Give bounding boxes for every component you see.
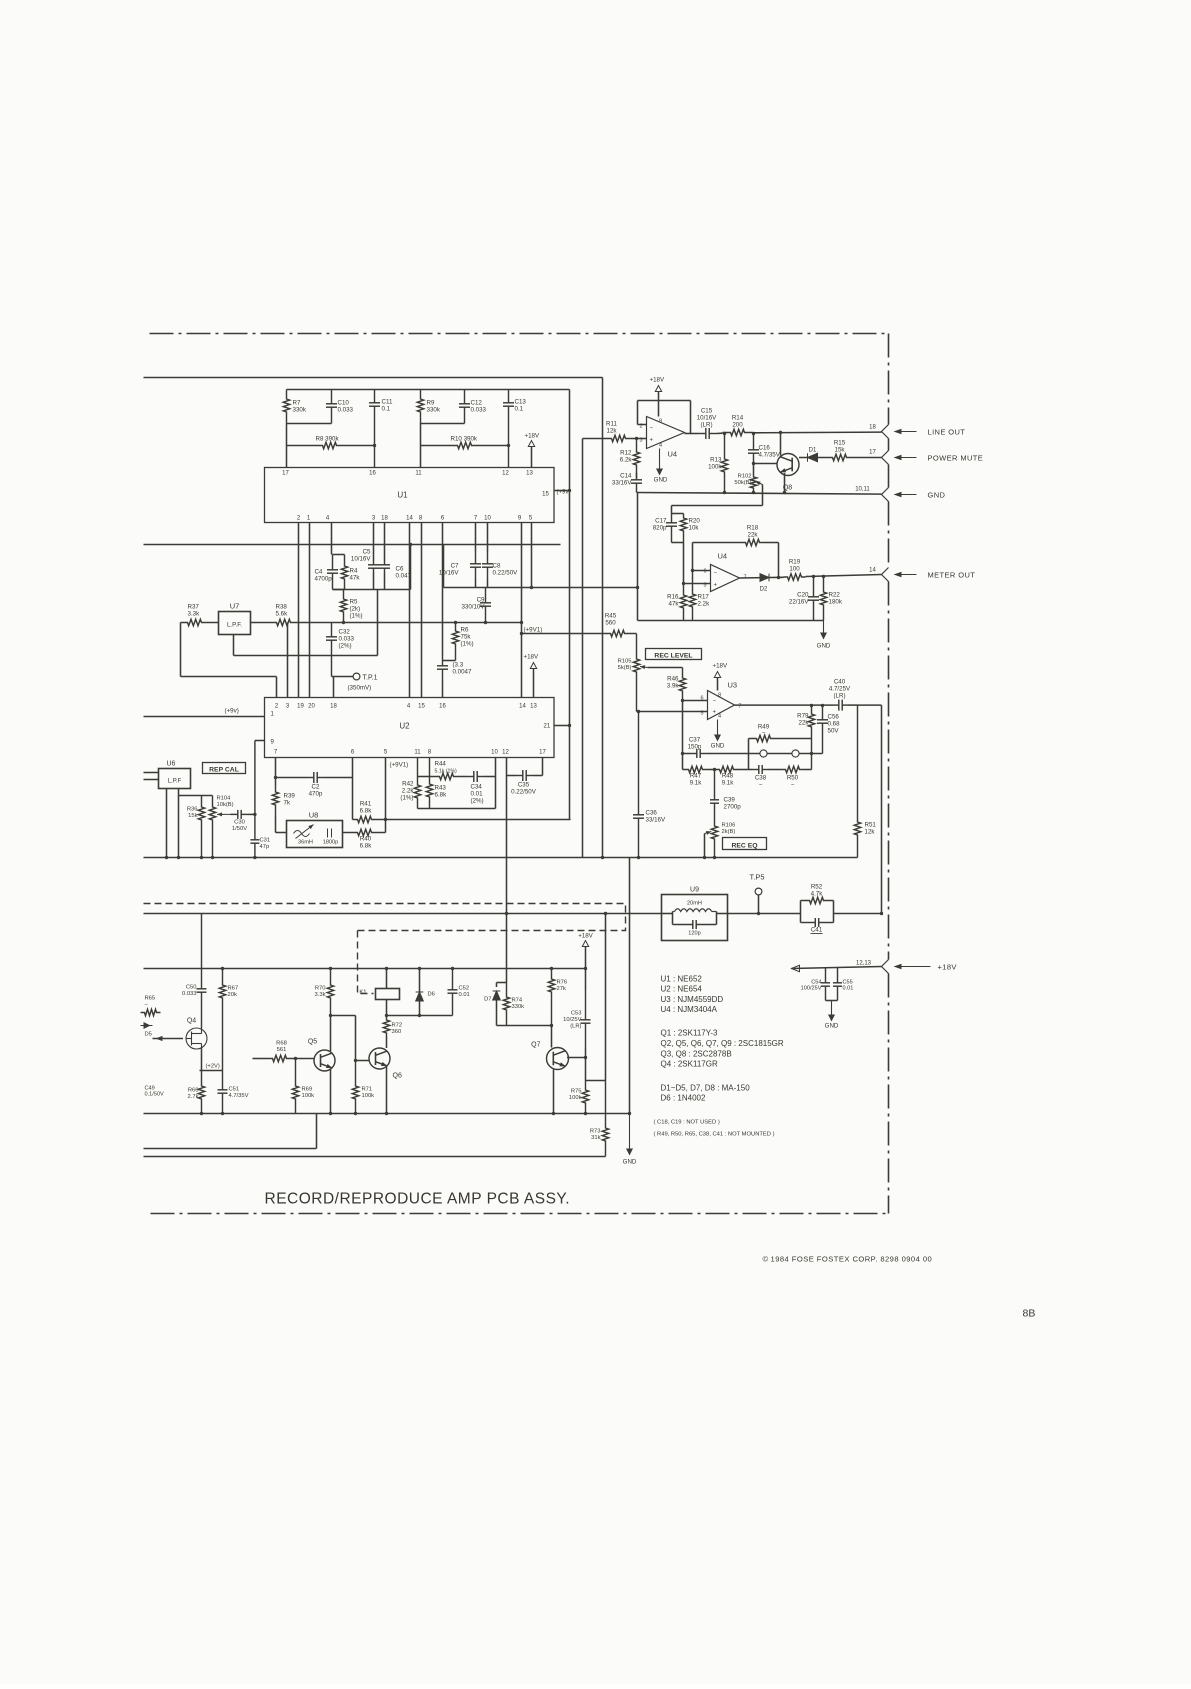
svg-text:R45: R45 xyxy=(605,613,617,620)
resistor R10 xyxy=(421,442,509,448)
svg-text:D1~D5, D7, D8 : MA-150: D1~D5, D7, D8 : MA-150 xyxy=(661,1084,751,1093)
wire D7 bottom xyxy=(496,1000,498,1026)
resistor R5 xyxy=(340,590,346,623)
svg-text:C51: C51 xyxy=(229,1087,240,1093)
svg-text:R40: R40 xyxy=(360,836,372,843)
capacitor C34 xyxy=(466,771,486,782)
svg-text:0.1: 0.1 xyxy=(382,406,391,413)
svg-text:2: 2 xyxy=(297,516,301,522)
svg-text:0.033: 0.033 xyxy=(338,407,354,414)
svg-text:R11: R11 xyxy=(606,421,617,428)
resistor R51 xyxy=(854,705,860,857)
svg-text:Q3, Q8 : 2SC2878B: Q3, Q8 : 2SC2878B xyxy=(661,1049,732,1058)
junction xyxy=(200,856,203,859)
wire to TP1 xyxy=(332,676,354,678)
label R19 100 xyxy=(789,559,801,573)
label R75 xyxy=(569,1089,582,1102)
wire U4b pin6 line xyxy=(693,570,711,572)
svg-text:16: 16 xyxy=(369,471,376,477)
svg-text:4: 4 xyxy=(407,704,411,710)
svg-text:U6: U6 xyxy=(167,761,176,768)
wire x377 xyxy=(377,590,379,656)
+18V supply arrow xyxy=(714,672,720,678)
wire xyxy=(475,579,477,588)
wire +9v ladder rail xyxy=(287,389,570,391)
wire power mute to border xyxy=(853,457,882,459)
wire xyxy=(849,704,858,706)
svg-text:8: 8 xyxy=(718,693,721,699)
svg-text:4: 4 xyxy=(659,443,662,449)
svg-text:RECORD/REPRODUCE AMP PCB AS: RECORD/REPRODUCE AMP PCB ASSY. xyxy=(265,1191,571,1208)
svg-text:D1: D1 xyxy=(809,448,817,454)
diode D5 fragment xyxy=(141,1025,153,1027)
wire U1 pin9 to U2 pin14 xyxy=(521,523,523,698)
+18V supply arrow xyxy=(655,386,661,392)
svg-text:C32: C32 xyxy=(339,629,351,636)
svg-text:C2: C2 xyxy=(312,784,320,791)
junction xyxy=(221,1112,224,1115)
junction xyxy=(385,967,388,970)
svg-text:15: 15 xyxy=(418,704,425,710)
svg-text:+: + xyxy=(713,710,717,716)
resistor R66 xyxy=(198,1071,204,1114)
label R71 xyxy=(362,1087,375,1100)
svg-text:R19: R19 xyxy=(789,559,801,566)
junction xyxy=(601,856,604,859)
resistor R36 xyxy=(198,796,204,858)
label R106 xyxy=(722,823,736,836)
wire input vertical x582 xyxy=(582,439,584,858)
junction xyxy=(584,967,587,970)
svg-text:R48: R48 xyxy=(722,773,734,780)
svg-text:5k(B): 5k(B) xyxy=(618,665,632,671)
svg-text:−: − xyxy=(759,782,763,789)
label R74 xyxy=(512,998,525,1011)
transistor Q4 (FET) xyxy=(186,1028,207,1049)
svg-text:T.P.1: T.P.1 xyxy=(363,675,378,682)
svg-text:GND: GND xyxy=(711,743,725,750)
wire U4b feedback left xyxy=(692,543,694,571)
junction xyxy=(810,752,813,755)
wire Q5 base line xyxy=(253,1058,267,1060)
junction xyxy=(812,575,815,578)
svg-text:C37: C37 xyxy=(689,737,701,744)
svg-text:C7: C7 xyxy=(451,563,459,570)
wire U2 pin21 stub xyxy=(554,725,570,727)
wire meter out xyxy=(740,576,784,579)
svg-text:L.P.F.: L.P.F. xyxy=(227,622,242,629)
svg-text:C8: C8 xyxy=(493,563,501,570)
svg-text:C39: C39 xyxy=(724,797,736,804)
wire R38 to U2 pin3 xyxy=(287,623,289,698)
label R37 3.3k xyxy=(188,604,201,618)
wire xyxy=(293,1058,315,1060)
wire out of U9 xyxy=(717,913,728,915)
label 0.0047 xyxy=(453,662,472,676)
wire +18V to U2 pin13 xyxy=(533,669,535,698)
wire +18V to U1 pin13 xyxy=(531,447,533,468)
svg-text:C41: C41 xyxy=(811,927,823,934)
connector notch xyxy=(882,568,889,582)
resistor R43 xyxy=(426,758,432,809)
wire U1 pin6 to U2 pin16 xyxy=(442,523,444,656)
svg-text:R46: R46 xyxy=(667,676,679,683)
svg-text:0.1/50V: 0.1/50V xyxy=(145,1092,165,1098)
svg-text:0.047: 0.047 xyxy=(396,573,412,580)
wire C30 to C31 node xyxy=(249,813,255,815)
svg-text:C4: C4 xyxy=(315,569,323,576)
wire xyxy=(496,983,498,988)
label C40 xyxy=(829,679,851,700)
resistor R18 xyxy=(741,539,765,545)
wire collector node xyxy=(585,1048,587,1081)
svg-text:3: 3 xyxy=(372,516,376,522)
svg-text:R65: R65 xyxy=(145,996,156,1002)
svg-text:C40: C40 xyxy=(834,679,846,686)
label R22 180k xyxy=(829,592,843,606)
wire xyxy=(717,432,723,434)
svg-text:C53: C53 xyxy=(571,1011,582,1017)
parts list transistors xyxy=(661,1029,784,1069)
IC U1 xyxy=(265,468,555,523)
label R105 xyxy=(618,659,632,672)
arrow gnd xyxy=(894,492,917,498)
wire Q8 emitter xyxy=(784,473,786,493)
junction xyxy=(505,912,508,915)
svg-text:C38: C38 xyxy=(755,775,767,782)
label R12 xyxy=(620,450,633,464)
svg-text:7: 7 xyxy=(274,750,278,756)
junction xyxy=(342,621,345,624)
svg-text:R47: R47 xyxy=(690,773,702,780)
junction xyxy=(713,856,716,859)
svg-text:(2%): (2%) xyxy=(339,643,352,650)
wire U2 pin5 down xyxy=(385,758,387,833)
svg-text:8: 8 xyxy=(419,516,423,522)
label C36 xyxy=(646,810,666,824)
svg-text:15: 15 xyxy=(542,492,549,498)
svg-text:REC LEVEL: REC LEVEL xyxy=(654,652,692,659)
svg-text:R51: R51 xyxy=(865,822,877,829)
wire C2 row xyxy=(276,777,306,779)
svg-text:10,11: 10,11 xyxy=(855,487,870,493)
junction xyxy=(385,1014,388,1017)
svg-text:R20: R20 xyxy=(689,518,701,525)
svg-text:C31: C31 xyxy=(260,838,271,844)
capacitor C6 plates xyxy=(379,561,390,573)
label C13 0.1 xyxy=(515,399,527,413)
wire y655 xyxy=(234,655,378,657)
junction xyxy=(200,1112,203,1115)
wire xyxy=(286,424,288,446)
svg-text:( R49, R50, R65, C38, C41 : NO: ( R49, R50, R65, C38, C41 : NOT MOUNTED … xyxy=(654,1132,775,1138)
svg-text:C36: C36 xyxy=(646,810,658,817)
resistor R76 xyxy=(548,969,554,1026)
svg-text:0.68: 0.68 xyxy=(828,721,841,728)
wire into U9 xyxy=(662,913,673,915)
label R40 6.8k xyxy=(360,836,373,850)
svg-text:3.3k: 3.3k xyxy=(315,992,326,998)
svg-text:11: 11 xyxy=(415,471,422,477)
wire U2 pin9 stub xyxy=(255,740,265,742)
svg-text:(LR): (LR) xyxy=(833,693,845,700)
label C6 0.047 xyxy=(396,566,412,580)
transistor Q8 xyxy=(777,454,799,476)
svg-text:10/16V: 10/16V xyxy=(697,415,717,422)
wiper arrow R105 xyxy=(640,665,648,669)
svg-text:5: 5 xyxy=(529,516,533,522)
wire U1 pin7 via C7 xyxy=(475,523,477,553)
svg-text:D6 : 1N4002: D6 : 1N4002 xyxy=(661,1094,706,1103)
svg-text:13: 13 xyxy=(526,471,533,477)
wire U2 pin12 down to rec line xyxy=(506,758,508,914)
resistor R38 xyxy=(251,619,301,625)
svg-text:21: 21 xyxy=(544,724,551,730)
resistor R67 xyxy=(219,969,225,1071)
svg-text:6.2k: 6.2k xyxy=(620,457,633,464)
svg-text:9.1k: 9.1k xyxy=(722,780,735,787)
wire gnd bus y492 xyxy=(637,493,882,495)
svg-text:C16: C16 xyxy=(759,445,771,452)
wire C17/R20 top tie xyxy=(672,513,684,515)
svg-text:R12: R12 xyxy=(620,450,632,457)
wire ground bus y857 xyxy=(144,857,858,859)
ground C54/C55 xyxy=(828,1001,835,1022)
svg-text:0.22/50V: 0.22/50V xyxy=(493,570,519,577)
wire U7 out down xyxy=(233,635,235,656)
svg-text:R67: R67 xyxy=(228,986,239,992)
junction xyxy=(880,912,883,915)
svg-text:C11: C11 xyxy=(382,399,393,406)
label R48 9.1k xyxy=(722,773,735,787)
svg-text:C15: C15 xyxy=(701,408,713,415)
svg-text:3.3k: 3.3k xyxy=(188,611,201,618)
label R46 3.9k xyxy=(667,676,680,690)
junction xyxy=(253,813,256,816)
label R70 xyxy=(315,986,326,999)
junction xyxy=(221,967,224,970)
label R102 xyxy=(734,474,751,487)
svg-text:U3 : NJM4559DD: U3 : NJM4559DD xyxy=(661,995,724,1004)
wire relay bottom xyxy=(386,1000,388,1016)
svg-text:100k: 100k xyxy=(569,1095,582,1101)
U8 capacitor symbol xyxy=(327,829,329,838)
svg-text:R16: R16 xyxy=(667,594,679,601)
svg-text:C5: C5 xyxy=(363,549,371,556)
svg-text:C14: C14 xyxy=(620,473,632,480)
label C16 xyxy=(759,445,781,459)
junction xyxy=(418,1014,421,1017)
svg-text:R41: R41 xyxy=(360,801,372,808)
junction xyxy=(550,967,553,970)
capacitor C54 xyxy=(821,969,830,1001)
wire xyxy=(420,424,422,446)
resistor R12 xyxy=(633,439,639,479)
wire C54/C55 tie xyxy=(826,1000,838,1002)
label R67 xyxy=(228,986,239,999)
wire +18V entry xyxy=(792,967,882,969)
svg-text:4.7/25V: 4.7/25V xyxy=(829,686,851,693)
junction xyxy=(274,776,277,779)
svg-text:0.033: 0.033 xyxy=(471,407,487,414)
svg-text:K1: K1 xyxy=(359,990,366,996)
svg-text:R70: R70 xyxy=(315,986,326,992)
wire +18V to U4a pin8 xyxy=(658,392,660,417)
svg-text:(+9v): (+9v) xyxy=(225,708,239,715)
svg-text:561: 561 xyxy=(277,1047,287,1053)
wire rec out drop x881 xyxy=(881,705,883,913)
svg-text:R105: R105 xyxy=(618,659,632,665)
svg-text:(LR): (LR) xyxy=(570,1024,581,1030)
svg-text:33/16V: 33/16V xyxy=(612,480,632,487)
wiper arrow R106 xyxy=(705,831,712,835)
label C11 0.1 xyxy=(382,399,393,413)
svg-text:(3.3: (3.3 xyxy=(453,662,464,669)
svg-text:12: 12 xyxy=(502,750,509,756)
connector notch xyxy=(882,960,889,974)
svg-text:C10: C10 xyxy=(338,400,350,407)
junction xyxy=(752,491,755,494)
junction xyxy=(822,575,825,578)
svg-text:−: − xyxy=(791,782,795,789)
svg-text:6.8k: 6.8k xyxy=(360,843,373,850)
svg-text:R13: R13 xyxy=(710,457,722,464)
svg-text:0.22/50V: 0.22/50V xyxy=(511,789,537,796)
svg-text:7: 7 xyxy=(474,516,478,522)
resistor R6 xyxy=(452,623,458,661)
wire y622 line xyxy=(301,622,522,624)
wire U4a feedback top xyxy=(638,400,691,402)
wire ground spine x602 xyxy=(602,378,604,858)
junction xyxy=(484,621,487,624)
svg-text:0.0047: 0.0047 xyxy=(453,669,472,676)
wire EQ left vertical xyxy=(682,701,684,770)
svg-text:R6: R6 xyxy=(461,627,469,634)
svg-text:U4: U4 xyxy=(668,450,678,459)
svg-text:R69: R69 xyxy=(302,1087,313,1093)
wire xyxy=(804,769,812,771)
capacitor C4 xyxy=(327,555,338,590)
svg-text:C13: C13 xyxy=(515,399,527,406)
+18V supply arrow xyxy=(530,663,536,669)
capacitor C15 xyxy=(699,428,717,439)
svg-text:47k: 47k xyxy=(669,601,680,608)
LPF U8 xyxy=(287,821,343,848)
svg-text:180k: 180k xyxy=(829,599,843,606)
resistor R104 trimmer xyxy=(209,796,215,858)
svg-text:C17: C17 xyxy=(655,518,667,525)
wire base tie xyxy=(497,1025,552,1027)
wire xyxy=(534,775,543,777)
junction xyxy=(354,1112,357,1115)
svg-text:9: 9 xyxy=(271,740,275,746)
wire xyxy=(384,573,386,590)
svg-text:D6: D6 xyxy=(428,992,435,998)
label R38 5.6k xyxy=(276,604,289,618)
label R47 9.1k xyxy=(690,773,703,787)
wire xyxy=(769,769,782,771)
svg-text:(+9V1): (+9V1) xyxy=(390,762,409,769)
svg-text:6: 6 xyxy=(703,569,706,575)
svg-text:−: − xyxy=(762,730,766,737)
svg-text:(+9V1): (+9V1) xyxy=(524,627,543,634)
transistor Q6 xyxy=(369,1048,390,1069)
outer dash-dot border right (with connector notches) xyxy=(888,334,890,425)
wire EQ row2 xyxy=(683,769,685,771)
svg-text:10k(B): 10k(B) xyxy=(217,802,234,808)
wire xyxy=(487,579,489,588)
wire xyxy=(443,545,445,588)
wire line out to border xyxy=(753,431,882,434)
label C7 10/16V xyxy=(439,563,459,577)
resistor R75 xyxy=(582,1081,588,1114)
svg-text:5: 5 xyxy=(384,750,388,756)
svg-text:1/50V: 1/50V xyxy=(232,826,247,832)
svg-text:14: 14 xyxy=(869,568,876,574)
resistor R105 trimmer xyxy=(633,634,639,712)
label R45 560 xyxy=(605,613,617,627)
svg-text:C34: C34 xyxy=(471,784,483,791)
capacitor C20 xyxy=(808,577,819,621)
svg-text:19: 19 xyxy=(297,704,304,710)
svg-text:GND: GND xyxy=(654,477,668,484)
wire U3 pin5 line xyxy=(637,711,708,713)
label R51 12k xyxy=(865,822,877,836)
junction xyxy=(691,569,694,572)
wire bottom tie y808 xyxy=(418,808,496,810)
resistor R70 xyxy=(327,969,333,1016)
wire U1 pin4 to C4 xyxy=(331,523,333,555)
LPF U7 xyxy=(219,612,251,635)
wire D6 top xyxy=(419,969,421,993)
junction xyxy=(354,1059,357,1062)
jumper contact circles xyxy=(760,750,767,757)
svg-text:R36: R36 xyxy=(187,807,198,813)
wire U4b pin5 line xyxy=(684,583,711,585)
label R52 4.7k xyxy=(811,884,824,898)
wire (+9v) line to U2 pin1 xyxy=(144,716,265,718)
wire Q6 base drop xyxy=(355,1016,357,1061)
svg-text:POWER MUTE: POWER MUTE xyxy=(928,454,984,463)
resistor R50 xyxy=(782,766,804,772)
junction xyxy=(507,444,510,447)
svg-text:R44: R44 xyxy=(435,761,447,768)
svg-text:100k: 100k xyxy=(362,1093,375,1099)
wire R105 wiper to R46 xyxy=(648,667,683,669)
wire xyxy=(671,506,673,514)
svg-text:100: 100 xyxy=(789,566,800,573)
wire bus y544 xyxy=(144,544,561,546)
svg-text:18: 18 xyxy=(330,704,337,710)
svg-text:10: 10 xyxy=(484,516,491,522)
wire xyxy=(463,776,466,778)
wire meter out to border xyxy=(806,575,882,577)
resistor R47 xyxy=(685,766,707,772)
wire +18V rail lower section xyxy=(144,968,586,970)
junction xyxy=(253,856,256,859)
svg-text:36mH: 36mH xyxy=(298,840,313,846)
filter U9 xyxy=(662,895,728,941)
svg-text:+18V: +18V xyxy=(713,663,728,670)
svg-text:1: 1 xyxy=(271,712,275,718)
junction xyxy=(451,967,454,970)
svg-text:C52: C52 xyxy=(459,986,470,992)
junction xyxy=(520,632,523,635)
resistor R74 xyxy=(503,983,509,1026)
svg-text:R22: R22 xyxy=(829,592,841,599)
svg-text:Q4 : 2SK117GR: Q4 : 2SK117GR xyxy=(661,1060,718,1069)
svg-text:C30: C30 xyxy=(234,820,245,826)
